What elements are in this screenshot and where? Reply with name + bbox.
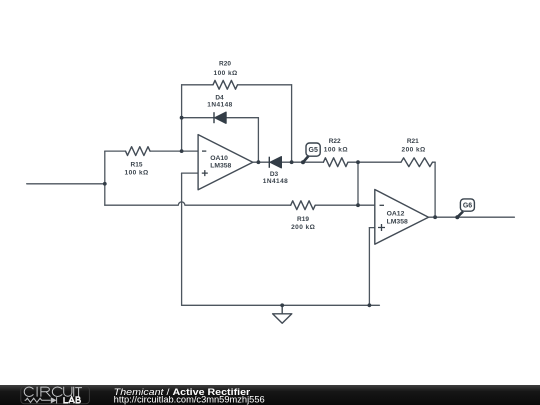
label R15 — [125, 161, 149, 176]
label OA10 — [210, 155, 231, 169]
flag G5 — [301, 143, 320, 164]
wire OA12 noninverting to ground vertical — [368, 228, 370, 306]
resistor R21 — [401, 158, 432, 167]
svg-text:100 kΩ: 100 kΩ — [214, 70, 238, 77]
svg-text:200 kΩ: 200 kΩ — [402, 146, 426, 153]
svg-text:1N4148: 1N4148 — [263, 178, 288, 185]
wire OA12 output — [429, 216, 515, 218]
junction: D3 cathode / R20 node — [290, 160, 294, 164]
wire ground rail — [182, 304, 380, 306]
svg-text:100 kΩ: 100 kΩ — [324, 146, 348, 153]
wire OA12 noninverting input — [369, 227, 374, 229]
footer logo LAB — [64, 397, 80, 403]
svg-text:G5: G5 — [309, 147, 318, 154]
wire R21 down vertical — [434, 162, 436, 217]
footer logo resistor-diode glyph — [25, 397, 57, 403]
label R20 — [214, 61, 238, 77]
wire R21 right lead — [433, 161, 436, 163]
svg-text:R19: R19 — [297, 216, 309, 223]
wire R19 right lead — [316, 204, 375, 206]
wire OA10 inverting input — [182, 150, 199, 152]
wire OA10 output to D3 — [253, 161, 269, 163]
svg-text:OA10: OA10 — [210, 155, 228, 162]
junction: OA12 output node — [433, 215, 437, 219]
wire noninverting to ground vertical — [181, 173, 183, 305]
svg-text:100 kΩ: 100 kΩ — [125, 169, 149, 176]
footer logo CIRCUIT lettering — [24, 387, 81, 396]
svg-text:R21: R21 — [407, 138, 419, 145]
footer bar — [0, 385, 540, 405]
resistor R22 — [323, 158, 348, 167]
svg-text:R22: R22 — [329, 138, 341, 145]
svg-text:1N4148: 1N4148 — [207, 101, 232, 108]
wire feedback left vertical — [181, 85, 183, 151]
svg-text:200 kΩ: 200 kΩ — [291, 224, 315, 231]
svg-text:G6: G6 — [463, 203, 472, 210]
resistor R20 — [213, 80, 238, 89]
label R19 — [291, 216, 315, 231]
label R21 — [402, 138, 426, 153]
svg-text:D3: D3 — [270, 171, 279, 178]
op-amp OA12 triangle — [375, 190, 429, 245]
svg-text:LM358: LM358 — [210, 163, 231, 170]
ground symbol — [273, 305, 292, 323]
wire D4 left lead — [182, 117, 214, 119]
diode D4 — [214, 112, 226, 123]
junction: OA12 noninverting rail node — [368, 303, 372, 307]
diode D3 — [269, 157, 281, 168]
wire R20 right lead — [238, 84, 292, 86]
svg-text:OA12: OA12 — [387, 211, 405, 218]
wire D3 to R22 — [281, 161, 323, 163]
op-amp OA12 input polarity marks — [378, 205, 385, 231]
wire R19 row with hop — [105, 202, 291, 205]
wire input — [27, 183, 105, 185]
svg-text:http://circuitlab.com/c3mn59mz: http://circuitlab.com/c3mn59mzhj556 — [114, 395, 265, 405]
wire node to OA12 inverting vertical — [357, 162, 359, 205]
junction: ground rail tap — [280, 303, 284, 307]
resistor R15 — [126, 147, 151, 156]
junction: OA10 output node — [257, 160, 261, 164]
junction: OA10 inverting node — [180, 149, 184, 153]
svg-text:R15: R15 — [131, 161, 143, 168]
junction: OA12 inverting node — [356, 203, 360, 207]
svg-text:LM358: LM358 — [387, 219, 408, 226]
label D3 — [263, 171, 288, 185]
wire vertical input tee — [104, 151, 106, 205]
op-amp OA10 triangle — [198, 135, 253, 190]
svg-text:R20: R20 — [219, 61, 231, 68]
junction: D4 left node — [180, 116, 184, 120]
junction: input tee — [103, 182, 107, 186]
wire D4 right lead — [226, 117, 258, 119]
wire R20 right vertical — [291, 85, 293, 162]
label R22 — [324, 138, 348, 153]
wire D4 right vertical — [257, 118, 259, 163]
footer logo badge border — [21, 386, 90, 403]
flag G6 — [455, 199, 474, 219]
resistor R19 — [291, 201, 316, 210]
label D4 — [207, 95, 232, 109]
label OA12 — [387, 211, 408, 226]
junction: R22-R21 node — [356, 160, 360, 164]
wire R22 to R21 — [348, 161, 401, 163]
wire R15 right lead — [151, 150, 182, 152]
op-amp OA10 input polarity marks — [202, 151, 208, 176]
wire R15 left lead — [105, 150, 126, 152]
wire OA10 noninverting input — [182, 172, 199, 174]
wire R20 left lead — [182, 84, 213, 86]
